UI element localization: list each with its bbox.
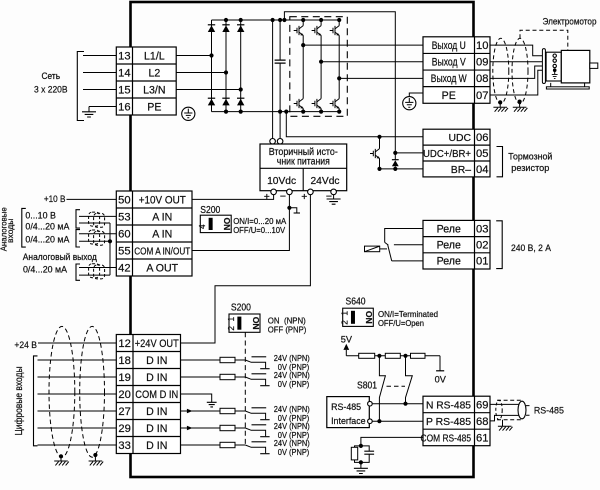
- wire 24V+ to terminal 12: [181, 195, 311, 343]
- terminal block digital 12-33: [116, 335, 180, 454]
- wire D IN 20 input: [38, 393, 117, 395]
- node screen gnd 1: [59, 454, 63, 458]
- motor cable screen ellipse 1: [493, 38, 509, 103]
- node cap top: [278, 18, 282, 22]
- svg-text:09: 09: [476, 57, 488, 69]
- svg-text:A IN: A IN: [152, 228, 172, 240]
- wire D IN 27 input: [38, 410, 117, 412]
- PSU input terminal 1: [270, 139, 276, 145]
- svg-text:19: 19: [118, 372, 130, 384]
- node return 60: [108, 239, 112, 243]
- svg-text:01: 01: [476, 256, 488, 268]
- node rail B: [403, 354, 407, 358]
- shield pair 3: [89, 264, 105, 279]
- resistor D IN 29: [220, 425, 235, 430]
- wire PE input: [89, 106, 116, 108]
- transistor VT6 (lower IGBT): [330, 99, 340, 109]
- bracket digital inputs: [34, 356, 38, 446]
- chassis stub 10V-: [289, 208, 300, 213]
- svg-text:60: 60: [118, 228, 130, 240]
- svg-text:2: 2: [340, 320, 350, 325]
- svg-text:08: 08: [476, 73, 488, 85]
- node phase tap 2: [319, 60, 323, 64]
- svg-text:1: 1: [226, 316, 236, 321]
- svg-text:+10 В: +10 В: [44, 193, 66, 204]
- wire resistor to switch 33: [235, 444, 245, 446]
- svg-text:1: 1: [340, 311, 350, 316]
- switch blade D IN 33: [245, 445, 265, 453]
- digital cable screen ellipse 2: [80, 326, 105, 457]
- svg-text:RS-485: RS-485: [534, 405, 564, 416]
- wire A IN 60: [79, 233, 116, 235]
- node L3-bridge: [239, 87, 243, 91]
- wire P to cable: [490, 415, 519, 421]
- node bottom rail col2: [224, 110, 228, 114]
- resistor R2 termination: [385, 353, 400, 358]
- wire L2 input: [83, 72, 116, 74]
- svg-text:N RS-485: N RS-485: [426, 400, 471, 411]
- svg-text:+24V OUT: +24V OUT: [135, 338, 179, 350]
- svg-text:61: 61: [476, 432, 488, 444]
- dashed switch gang link: [244, 332, 246, 447]
- diode D3 (upper): [237, 24, 244, 26]
- switch blade D IN 27: [245, 411, 265, 419]
- terminal block relays 03-01: [423, 220, 490, 269]
- svg-text:L2: L2: [148, 67, 160, 79]
- svg-text:27: 27: [118, 406, 130, 418]
- wire BR- to terminal: [380, 168, 424, 170]
- wire DC+ upper route to UDC+: [284, 12, 395, 153]
- ground RS-485 cable: [498, 420, 513, 431]
- switch blade D IN 29: [245, 428, 265, 436]
- bracket pair 3: [76, 264, 80, 280]
- svg-text:Сеть: Сеть: [42, 71, 61, 81]
- node bottom rail col3: [239, 110, 243, 114]
- svg-text:Реле: Реле: [437, 240, 461, 252]
- wire L3 to bridge: [176, 89, 241, 91]
- bracket pair 2: [76, 230, 80, 247]
- svg-text:OFF/U=0...10V: OFF/U=0...10V: [233, 225, 285, 235]
- capacitor DC bus plates: [275, 60, 286, 63]
- node screen gnd 2: [93, 453, 97, 457]
- contact bar 0V 29: [260, 436, 269, 438]
- svg-text:0/4...20 мА: 0/4...20 мА: [25, 221, 70, 232]
- svg-text:0/4...20 мА: 0/4...20 мА: [23, 263, 68, 274]
- svg-text:14: 14: [118, 67, 130, 79]
- svg-text:L1/L: L1/L: [144, 50, 165, 62]
- node cap bottom rail: [278, 110, 282, 114]
- svg-text:Выход W: Выход W: [431, 73, 467, 85]
- svg-text:Реле: Реле: [437, 223, 461, 235]
- rectifier column 3 wire: [240, 20, 242, 112]
- node top rail inverter col2: [319, 18, 323, 22]
- wire L2 to bridge: [176, 72, 226, 74]
- svg-text:Аналоговый выход: Аналоговый выход: [23, 251, 97, 262]
- inverter module dashed box: [290, 17, 348, 117]
- svg-text:D IN: D IN: [146, 355, 167, 367]
- wire +24V input: [38, 342, 116, 344]
- svg-text:чник питания: чник питания: [277, 157, 330, 168]
- resistor D IN 33: [220, 442, 235, 447]
- terminal block UDC 06-04: [423, 129, 490, 177]
- svg-text:PE: PE: [442, 90, 456, 102]
- svg-text:+24 В: +24 В: [14, 339, 37, 350]
- drive enclosure border: [131, 2, 474, 477]
- svg-text:+10V OUT: +10V OUT: [139, 194, 186, 206]
- bracket relay rating: [496, 221, 502, 269]
- svg-text:Реле: Реле: [437, 256, 461, 268]
- transistor VT1 (upper IGBT): [294, 26, 304, 36]
- transistor VT3 (upper IGBT): [330, 26, 340, 36]
- wire relay common: [394, 244, 423, 246]
- wire DC+ feed to PSU: [272, 20, 274, 139]
- terminal block outputs 10-07: [423, 37, 490, 103]
- bracket brake resistor: [497, 147, 503, 177]
- svg-text:240 В, 2 А: 240 В, 2 А: [511, 242, 552, 253]
- svg-text:0V: 0V: [435, 375, 447, 385]
- relay coil K1: [365, 246, 388, 252]
- svg-text:10Vdc: 10Vdc: [267, 176, 296, 187]
- capacitor RC network: [361, 446, 374, 463]
- wire motor PE: [490, 70, 553, 95]
- svg-text:33: 33: [118, 440, 130, 452]
- node P termination: [377, 419, 381, 423]
- diode brake freewheel: [392, 153, 399, 169]
- wire L1 to bridge: [176, 55, 211, 57]
- svg-text:COM RS-485: COM RS-485: [421, 433, 472, 444]
- resistor RC network: [351, 446, 361, 463]
- wire D IN 29 to resistor: [181, 427, 221, 429]
- switch S200 digital DIP: [229, 314, 260, 332]
- svg-text:COM A IN/OUT: COM A IN/OUT: [134, 246, 190, 257]
- bracket pair 1: [76, 210, 80, 228]
- ground screen 2: [513, 102, 528, 112]
- ground digital screen 1: [54, 456, 69, 465]
- node top rail inverter col1: [301, 18, 305, 22]
- diode D6 (lower): [237, 97, 244, 99]
- PSU 24V- terminal: [331, 189, 337, 195]
- wire +10V input: [67, 198, 117, 200]
- svg-text:PE: PE: [147, 101, 161, 113]
- node L2-bridge: [224, 70, 228, 74]
- svg-text:5V: 5V: [341, 335, 353, 345]
- ground symbol circled PE (mains): [182, 107, 195, 120]
- wire phase V: [321, 61, 423, 63]
- node L1-bridge: [209, 53, 213, 57]
- svg-text:07: 07: [476, 90, 488, 102]
- inverter column 2 wires: [320, 20, 322, 112]
- svg-text:D IN: D IN: [146, 440, 167, 452]
- arrow D IN 29: [187, 426, 193, 430]
- shield pair 2: [89, 230, 105, 245]
- svg-text:ON: ON: [251, 317, 261, 330]
- node top rail inverter col3: [337, 18, 341, 22]
- ground symbol circled PE (output): [403, 93, 423, 110]
- svg-text:+: +: [301, 191, 307, 203]
- node RC bottom: [359, 460, 363, 464]
- wire 5V rail: [346, 355, 440, 357]
- svg-text:Выход U: Выход U: [432, 40, 466, 52]
- RS-485 cable screen: [496, 400, 530, 420]
- svg-text:0V (PNP): 0V (PNP): [278, 380, 310, 389]
- wire D IN 27 to resistor: [181, 410, 221, 412]
- wire resistor to switch 19: [235, 376, 245, 378]
- diode D4 (lower): [208, 97, 215, 99]
- motor cable screen ellipse 2: [512, 38, 528, 103]
- bracket mains: [77, 52, 84, 121]
- svg-text:RS-485: RS-485: [331, 401, 361, 412]
- svg-text:Interface: Interface: [331, 415, 366, 426]
- node chopper collector: [377, 135, 381, 139]
- ground screen 1: [493, 102, 508, 111]
- wire A OUT return: [79, 274, 110, 276]
- switch S801-1: [379, 356, 385, 421]
- motor M1: [542, 49, 597, 89]
- node DC+ riser: [282, 18, 286, 22]
- svg-text:0V (PNP): 0V (PNP): [278, 448, 310, 457]
- svg-text:42: 42: [118, 262, 130, 274]
- supply arrow 5V: [343, 344, 349, 356]
- shield pair 1: [89, 212, 105, 227]
- svg-text:входы: входы: [5, 219, 15, 244]
- svg-text:3 х 220В: 3 х 220В: [34, 85, 68, 95]
- svg-text:12: 12: [118, 338, 130, 350]
- PSU 10V+ terminal: [271, 189, 277, 195]
- rectifier column 2 wire: [225, 20, 227, 112]
- contact tick NO: [385, 242, 389, 245]
- svg-text:S801: S801: [357, 381, 377, 392]
- node screen ground 2: [518, 100, 522, 104]
- ground mains PE: [82, 107, 96, 118]
- resistor R1 termination: [359, 353, 375, 358]
- wire L1 input: [83, 55, 116, 57]
- switch blade D IN 18: [245, 360, 265, 368]
- transistor VT2 (upper IGBT): [312, 26, 322, 36]
- ground COM D IN: [207, 402, 217, 407]
- inverter column 3 wires: [338, 20, 340, 112]
- svg-text:−: −: [326, 191, 332, 203]
- node N termination: [403, 402, 407, 406]
- terminal block mains 13-16: [116, 47, 176, 115]
- dashed S801 gang link: [387, 385, 406, 387]
- node bottom rail inverter col1: [301, 110, 305, 114]
- wire phase W: [339, 77, 423, 79]
- wire DC+ top rail: [212, 19, 340, 21]
- contact bar 0V 19: [260, 385, 269, 387]
- wire resistor to switch 27: [235, 410, 245, 412]
- node 10V- junction: [287, 206, 291, 210]
- contact bar 0V 18: [260, 368, 269, 370]
- resistor D IN 19: [220, 374, 235, 379]
- arrow D IN 27: [187, 409, 193, 413]
- node DC- branch: [284, 110, 288, 114]
- contact stub 24V 29: [252, 424, 267, 426]
- node bottom rail inverter col3: [337, 110, 341, 114]
- wire D IN 33 to resistor: [181, 444, 221, 446]
- svg-text:COM D IN: COM D IN: [135, 389, 178, 401]
- resistor D IN 27: [220, 408, 235, 413]
- svg-text:15: 15: [118, 84, 130, 96]
- wire D IN 19 to resistor: [181, 376, 221, 378]
- label polarity marks: [264, 191, 332, 204]
- label Тормозной резистор: [508, 150, 552, 173]
- svg-text:ON: ON: [364, 311, 374, 324]
- wire COM D IN 20: [181, 394, 212, 402]
- svg-text:02: 02: [476, 240, 488, 252]
- wire D IN 18 input: [38, 359, 117, 361]
- svg-text:69: 69: [476, 399, 488, 411]
- wire A OUT 42: [79, 267, 116, 269]
- svg-text:D IN: D IN: [146, 406, 167, 418]
- wire relay NC contact: [392, 260, 423, 262]
- wire 0V drop: [439, 356, 441, 371]
- bracket analog labels: [22, 208, 26, 247]
- svg-text:06: 06: [476, 132, 488, 144]
- wire relay NO contact: [385, 229, 423, 243]
- svg-text:Тормозной: Тормозной: [508, 150, 552, 161]
- svg-text:резистор: резистор: [511, 162, 549, 173]
- wire DC- bottom rail: [212, 111, 340, 113]
- svg-text:4: 4: [197, 224, 207, 229]
- ground RC: [354, 462, 368, 473]
- contact bar 0V 27: [260, 419, 269, 421]
- node phase tap 3: [337, 76, 341, 80]
- wire resistor to switch 29: [235, 427, 245, 429]
- diode D5 (lower): [222, 97, 229, 99]
- ground 24V-: [327, 195, 341, 205]
- svg-text:68: 68: [476, 416, 488, 428]
- node diode anode: [393, 167, 397, 171]
- secondary power supply box: [260, 144, 347, 191]
- svg-text:UDC+/BR+: UDC+/BR+: [423, 149, 471, 160]
- svg-text:0...10 В: 0...10 В: [25, 209, 56, 220]
- svg-text:0/4...20 мА: 0/4...20 мА: [25, 234, 70, 245]
- svg-text:S200: S200: [231, 303, 252, 314]
- wire UDC+ to terminal: [395, 152, 423, 154]
- svg-text:A IN: A IN: [152, 211, 172, 223]
- capacitor DC bus (lower lead): [279, 63, 281, 138]
- wire N RS-485: [372, 403, 423, 405]
- transistor brake chopper: [370, 137, 380, 169]
- resistor D IN 18: [220, 357, 235, 362]
- svg-text:ON: ON: [222, 217, 232, 230]
- svg-text:03: 03: [476, 223, 488, 235]
- RS-485 interface box: [327, 397, 370, 428]
- rectifier column 1 wire: [211, 20, 213, 112]
- wire analog returns vertical: [109, 223, 111, 275]
- contact stub 24V 27: [252, 407, 267, 409]
- resistor R3 termination: [411, 353, 426, 358]
- node UDC+ junction: [393, 151, 397, 155]
- relay contact blade: [388, 244, 392, 261]
- capacitor DC bus (upper lead): [279, 20, 281, 60]
- diode D1 (upper): [208, 24, 215, 26]
- svg-text:29: 29: [118, 423, 130, 435]
- svg-text:24Vdc: 24Vdc: [311, 176, 340, 187]
- wire A IN 60 return: [79, 240, 110, 242]
- node RC top: [359, 444, 363, 448]
- label: Сеть 3 x 220В: [34, 71, 68, 95]
- wire phase U: [303, 44, 423, 46]
- svg-text:S640: S640: [346, 296, 367, 307]
- node top rail col3: [239, 18, 243, 22]
- ground digital screen 2: [89, 455, 104, 465]
- transistor VT5 (lower IGBT): [312, 99, 322, 109]
- svg-text:L3/N: L3/N: [143, 84, 165, 96]
- wire D IN 29 input: [38, 427, 117, 429]
- svg-text:05: 05: [476, 148, 488, 160]
- wire P RS-485: [372, 420, 423, 422]
- wire D IN 19 input: [38, 376, 117, 378]
- wire motor U: [490, 45, 546, 56]
- svg-text:50: 50: [118, 194, 130, 206]
- wire L3 input: [83, 89, 116, 91]
- transistor VT4 (lower IGBT): [294, 99, 304, 109]
- switch S640 DIP: [343, 308, 374, 326]
- contact stub 24V 18: [252, 356, 267, 358]
- wire N to cable: [490, 403, 519, 405]
- contact bar 0V 33: [260, 453, 269, 455]
- svg-text:10: 10: [476, 40, 488, 52]
- diode D2 (upper): [222, 24, 229, 26]
- svg-text:P RS-485: P RS-485: [426, 417, 471, 428]
- node screen ground 1: [498, 100, 502, 104]
- svg-text:53: 53: [118, 211, 130, 223]
- svg-text:18: 18: [118, 355, 130, 367]
- svg-text:16: 16: [118, 101, 130, 113]
- svg-text:20: 20: [118, 389, 130, 401]
- digital cable screen ellipse 1: [49, 326, 75, 457]
- svg-text:13: 13: [118, 50, 130, 62]
- label Аналоговые входы (vertical): [0, 207, 15, 251]
- PSU 10V- terminal: [287, 189, 293, 195]
- wire DC- to UDC: [286, 112, 423, 137]
- PSU input terminal 2: [277, 139, 283, 145]
- switch S200 analog DIP: [200, 215, 231, 232]
- switch blade D IN 19: [245, 377, 265, 385]
- inverter column 1 wires: [302, 20, 304, 112]
- svg-text:2: 2: [226, 326, 236, 331]
- PSU 24V+ terminal: [308, 189, 314, 195]
- node chopper emitter: [377, 167, 381, 171]
- wire COM RS-485: [361, 437, 423, 446]
- wire D IN 33 input: [38, 444, 117, 446]
- switch S801-2: [406, 356, 413, 404]
- wire A IN 53 return: [79, 222, 110, 224]
- svg-text:Выход V: Выход V: [432, 57, 467, 69]
- interface terminal N: [368, 401, 373, 406]
- contact stub 24V 33: [252, 441, 267, 443]
- terminal block analog 50-42: [116, 191, 192, 276]
- wire resistor to switch 18: [235, 359, 245, 361]
- wire 10V- common: [192, 195, 289, 251]
- node DC+ feed: [271, 18, 275, 22]
- node phase tap 1: [301, 43, 305, 47]
- svg-text:UDC: UDC: [448, 133, 471, 144]
- svg-text:S200: S200: [200, 205, 221, 216]
- contact stub 24V 19: [252, 373, 267, 375]
- wire motor W: [490, 66, 546, 78]
- wire D IN 18 to resistor: [181, 359, 221, 361]
- svg-text:04: 04: [476, 164, 488, 176]
- svg-text:55: 55: [118, 245, 130, 257]
- svg-text:Цифровые входы: Цифровые входы: [14, 367, 25, 436]
- svg-text:D IN: D IN: [146, 423, 167, 435]
- svg-text:Электромотор: Электромотор: [543, 17, 597, 28]
- svg-text:A OUT: A OUT: [146, 262, 178, 274]
- svg-text:D IN: D IN: [146, 372, 167, 384]
- svg-text:+: +: [264, 191, 270, 203]
